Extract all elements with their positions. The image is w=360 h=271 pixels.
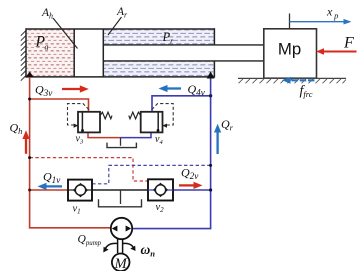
svg-text:Mp: Mp xyxy=(278,39,301,58)
svg-text:Ah: Ah xyxy=(41,7,53,21)
svg-text:ffrc: ffrc xyxy=(300,84,313,100)
svg-text:xp: xp xyxy=(326,5,338,21)
svg-text:Q3v: Q3v xyxy=(35,83,53,99)
svg-text:M: M xyxy=(114,256,128,271)
svg-text:Qh: Qh xyxy=(10,121,23,137)
svg-text:Q1v: Q1v xyxy=(43,170,61,186)
svg-text:ωn: ωn xyxy=(141,242,156,259)
svg-text:Qr: Qr xyxy=(221,117,234,133)
svg-text:v2: v2 xyxy=(156,202,165,214)
svg-text:Q4v: Q4v xyxy=(188,82,206,98)
svg-text:v3: v3 xyxy=(76,134,84,146)
svg-text:v4: v4 xyxy=(155,134,163,146)
svg-text:F: F xyxy=(343,34,354,51)
svg-text:Ar: Ar xyxy=(116,6,128,20)
svg-text:Q2v: Q2v xyxy=(181,166,199,182)
svg-text:Qpump: Qpump xyxy=(78,234,102,247)
svg-text:v1: v1 xyxy=(73,204,81,216)
